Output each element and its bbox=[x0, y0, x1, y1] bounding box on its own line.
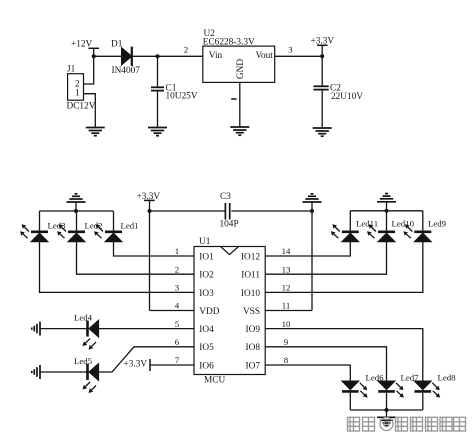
node left rail junction bbox=[74, 209, 78, 213]
svg-text:4: 4 bbox=[175, 301, 180, 311]
ground under C2 bbox=[313, 128, 332, 136]
wire J1 pin 2 to +12V node bbox=[84, 57, 94, 84]
LED Led9 bbox=[403, 224, 431, 242]
wire C3 to VSS branch bbox=[231, 210, 312, 212]
wire ground to right rail bbox=[386, 202, 388, 211]
svg-text:13: 13 bbox=[282, 264, 291, 274]
wire Led2 to U1 IO2 bbox=[77, 242, 195, 274]
wire left LED cathode-rail bbox=[40, 210, 114, 212]
svg-text:IO1: IO1 bbox=[199, 252, 214, 262]
wire rail to Led9 cathode bbox=[422, 211, 424, 232]
wire +3.3V node to C3 bbox=[150, 210, 226, 212]
svg-text:IO3: IO3 bbox=[199, 289, 214, 299]
svg-text:104P: 104P bbox=[220, 219, 239, 229]
wire bottom LED rail bbox=[350, 409, 423, 411]
capacitor C2 22U10V bbox=[314, 56, 364, 128]
svg-text:DC12V: DC12V bbox=[67, 101, 96, 111]
svg-text:Led1: Led1 bbox=[121, 221, 139, 231]
svg-text:+3.3V: +3.3V bbox=[124, 359, 148, 369]
wire rail to Led10 cathode bbox=[386, 211, 388, 232]
svg-text:Led11: Led11 bbox=[356, 219, 378, 229]
diode D1 IN4007 bbox=[111, 39, 140, 76]
svg-text:Led2: Led2 bbox=[85, 221, 103, 231]
wire U2 Vout to +3.3V node bbox=[275, 55, 323, 57]
svg-text:Led4: Led4 bbox=[74, 313, 93, 323]
svg-text:IO5: IO5 bbox=[199, 343, 214, 353]
svg-text:GND: GND bbox=[236, 59, 246, 79]
wire to U1 VSS pin 11 bbox=[265, 310, 312, 312]
node VSS branch junction bbox=[310, 209, 314, 213]
svg-text:Led5: Led5 bbox=[74, 356, 93, 366]
LED Led7 bbox=[378, 381, 404, 398]
LED Led4 bbox=[83, 320, 99, 350]
svg-text:14: 14 bbox=[282, 246, 291, 256]
ground left of Led5 bbox=[32, 365, 40, 379]
svg-text:3: 3 bbox=[288, 44, 293, 54]
LED Led10 bbox=[367, 224, 395, 242]
svg-text:IO7: IO7 bbox=[246, 361, 261, 371]
svg-text:IO10: IO10 bbox=[241, 289, 260, 299]
wire Led1 to U1 IO1 bbox=[114, 242, 195, 256]
svg-text:IN4007: IN4007 bbox=[112, 66, 141, 76]
ground above right LED rail bbox=[377, 194, 396, 202]
svg-text:U1: U1 bbox=[199, 237, 211, 247]
wire Led5 anode to U1 IO5 pin 6 bbox=[99, 347, 194, 372]
wire ground to VSS branch node bbox=[311, 202, 313, 211]
svg-text:Led8: Led8 bbox=[438, 372, 457, 382]
capacitor C1 10U25V bbox=[151, 56, 198, 127]
svg-text:7: 7 bbox=[175, 355, 180, 365]
pin 1 tick U2 GND bbox=[231, 98, 236, 100]
wire rail to Led2 cathode bbox=[76, 211, 78, 232]
svg-text:VDD: VDD bbox=[199, 307, 219, 317]
wire Led10 to U1 IO11 bbox=[265, 242, 386, 274]
ground under bottom rail bbox=[377, 417, 396, 425]
node +3.3V rail junction bbox=[148, 209, 152, 213]
wire J1 pin 1 to ground bbox=[84, 94, 96, 128]
node right rail junction bbox=[385, 209, 389, 213]
LED Led3 bbox=[20, 224, 48, 242]
wire +3.3V down to VDD row bbox=[149, 211, 151, 311]
svg-text:Vin: Vin bbox=[209, 51, 223, 61]
svg-text:12: 12 bbox=[282, 283, 291, 293]
ground under J1 bbox=[86, 128, 105, 136]
svg-text:Led3: Led3 bbox=[48, 221, 67, 231]
svg-text:MCU: MCU bbox=[204, 376, 225, 386]
svg-text:5: 5 bbox=[175, 319, 180, 329]
wire +12V to D1 anode bbox=[94, 55, 122, 57]
ground above left LED rail bbox=[67, 194, 86, 202]
wire U1 IO9 pin 10 to Led8 bbox=[265, 329, 423, 381]
svg-text:C3: C3 bbox=[220, 192, 231, 202]
svg-text:D1: D1 bbox=[111, 39, 123, 49]
MCU U1 bbox=[194, 237, 265, 386]
wire ground to Led5 cathode bbox=[40, 371, 88, 373]
wire down to VSS row bbox=[311, 211, 313, 311]
svg-text:IO12: IO12 bbox=[241, 252, 260, 262]
LED Led8 bbox=[414, 381, 440, 398]
wire rail to Led1 cathode bbox=[113, 211, 115, 232]
regulator U2 EC6228-3.3V bbox=[203, 29, 275, 82]
svg-text:22U10V: 22U10V bbox=[331, 92, 363, 102]
svg-text:J1: J1 bbox=[67, 65, 76, 75]
wire D1 cathode to U2 Vin bbox=[132, 55, 203, 57]
capacitor C3 104P bbox=[220, 192, 239, 230]
node C1 tap junction bbox=[156, 54, 160, 58]
power flag +12V bbox=[71, 40, 99, 57]
wire Led7 cathode to bottom rail bbox=[386, 393, 388, 410]
svg-text:IO9: IO9 bbox=[246, 325, 261, 335]
svg-text:IO2: IO2 bbox=[199, 271, 214, 281]
svg-text:8: 8 bbox=[284, 355, 289, 365]
LED Led11 bbox=[331, 224, 359, 242]
power flag +3.3V (at U1 IO6) bbox=[124, 359, 151, 371]
svg-text:6: 6 bbox=[175, 337, 180, 347]
node bottom rail junction bbox=[385, 408, 389, 412]
svg-text:10: 10 bbox=[282, 319, 291, 329]
wire bottom rail to ground bbox=[386, 410, 388, 417]
node +12V junction bbox=[92, 54, 96, 58]
svg-text:IO4: IO4 bbox=[199, 325, 214, 335]
svg-text:11: 11 bbox=[282, 301, 290, 311]
svg-text:Vout: Vout bbox=[256, 51, 274, 61]
LED Led5 bbox=[83, 364, 99, 394]
svg-text:VSS: VSS bbox=[243, 307, 260, 317]
wire ground to left rail bbox=[75, 202, 77, 211]
svg-text:2: 2 bbox=[175, 264, 179, 274]
LED Led2 bbox=[57, 224, 85, 242]
power flag +3.3V (top section) bbox=[311, 37, 335, 57]
svg-text:2: 2 bbox=[184, 44, 188, 54]
ground left of Led4 bbox=[32, 322, 40, 336]
wire U2 GND pin to ground bbox=[239, 82, 241, 127]
svg-text:EC6228-3.3V: EC6228-3.3V bbox=[203, 37, 255, 47]
ground above VSS branch bbox=[303, 194, 322, 202]
wire rail to Led3 cathode bbox=[39, 211, 41, 232]
wire Led4 anode to U1 IO4 pin 5 bbox=[99, 328, 194, 330]
ground under C1 bbox=[148, 128, 167, 136]
wire Led6 cathode to bottom rail bbox=[349, 393, 351, 410]
wire U1 IO7 pin 8 to Led6 bbox=[265, 365, 350, 381]
node +3.3V junction bbox=[320, 54, 324, 58]
watermark 知乎 @丽晶微电子 bbox=[348, 417, 466, 431]
wire Led3 to U1 IO3 bbox=[40, 242, 195, 293]
svg-text:Led10: Led10 bbox=[392, 219, 415, 229]
LED Led1 bbox=[94, 224, 122, 242]
wire to U1 VDD pin 4 bbox=[150, 310, 195, 312]
wire +3.3V flag to U1 IO6 pin 7 bbox=[150, 364, 194, 366]
svg-text:IO8: IO8 bbox=[246, 343, 261, 353]
svg-text:IO6: IO6 bbox=[199, 361, 214, 371]
svg-text:1: 1 bbox=[175, 246, 179, 256]
wire ground to Led4 cathode bbox=[40, 328, 88, 330]
svg-text:10U25V: 10U25V bbox=[166, 92, 198, 102]
wire right LED cathode-rail bbox=[350, 210, 423, 212]
svg-text:Led9: Led9 bbox=[428, 219, 447, 229]
power flag +3.3V (bottom section) bbox=[137, 192, 161, 211]
svg-text:9: 9 bbox=[284, 337, 289, 347]
wire rail to Led11 cathode bbox=[349, 211, 351, 232]
wire Led9 to U1 IO10 bbox=[265, 242, 423, 293]
wire U1 IO8 pin 9 to Led7 bbox=[265, 347, 386, 381]
ground under U2 bbox=[230, 127, 249, 135]
wire Led11 to U1 IO12 bbox=[265, 242, 350, 256]
wire Led8 cathode to bottom rail bbox=[422, 393, 424, 410]
connector J1 bbox=[67, 65, 96, 112]
svg-text:1: 1 bbox=[75, 89, 80, 99]
svg-text:IO11: IO11 bbox=[241, 271, 260, 281]
svg-text:3: 3 bbox=[175, 283, 180, 293]
LED Led6 bbox=[342, 381, 368, 398]
